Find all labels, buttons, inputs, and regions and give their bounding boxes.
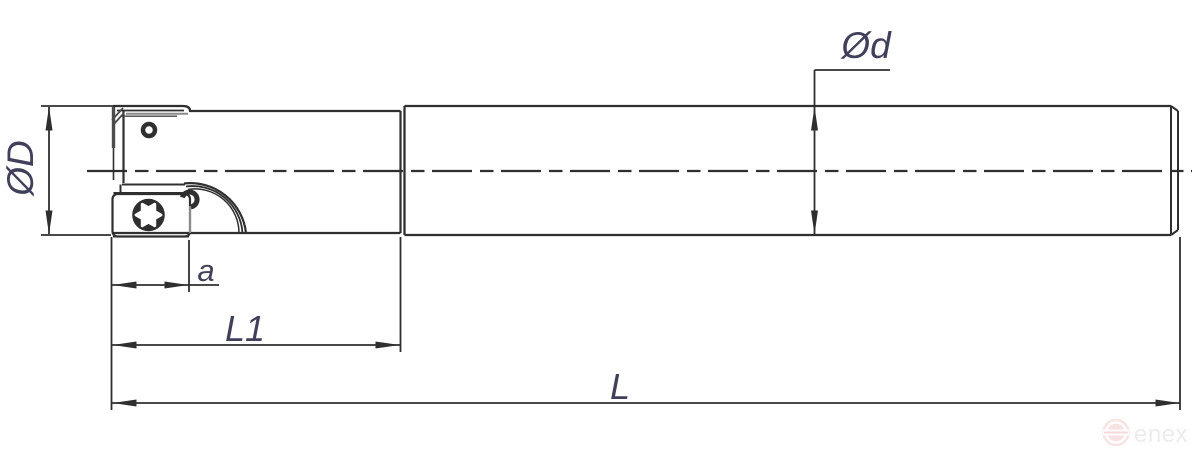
neck outline bbox=[112, 111, 401, 233]
centerline bbox=[87, 170, 1192, 172]
svg-text:ØD: ØD bbox=[0, 140, 41, 198]
dimension L bbox=[112, 237, 1181, 410]
head face lines bbox=[114, 107, 124, 183]
flute hook bbox=[182, 192, 197, 207]
chamfer hatch bbox=[112, 108, 124, 125]
svg-text:a: a bbox=[197, 253, 214, 288]
lower insert bbox=[113, 194, 191, 237]
svg-text:L1: L1 bbox=[225, 308, 265, 349]
svg-text:L: L bbox=[610, 366, 630, 407]
dimension Od bbox=[815, 70, 891, 235]
insert top edge view bbox=[113, 106, 190, 116]
seat lines bbox=[114, 185, 186, 194]
dimension L1 bbox=[112, 237, 401, 352]
svg-text:Ød: Ød bbox=[839, 25, 892, 66]
insert screw hole bbox=[143, 124, 155, 136]
svg-text:enex: enex bbox=[1134, 421, 1188, 448]
dimension a bbox=[112, 240, 219, 292]
chip flute arcs bbox=[184, 183, 246, 233]
watermark enex logo bbox=[1103, 420, 1188, 448]
insert bottom edge bbox=[113, 236, 189, 238]
shank outline bbox=[405, 106, 1172, 235]
dimension OD bbox=[41, 106, 113, 235]
shank end chamfer bbox=[1171, 106, 1178, 235]
torx screw bbox=[132, 199, 165, 232]
